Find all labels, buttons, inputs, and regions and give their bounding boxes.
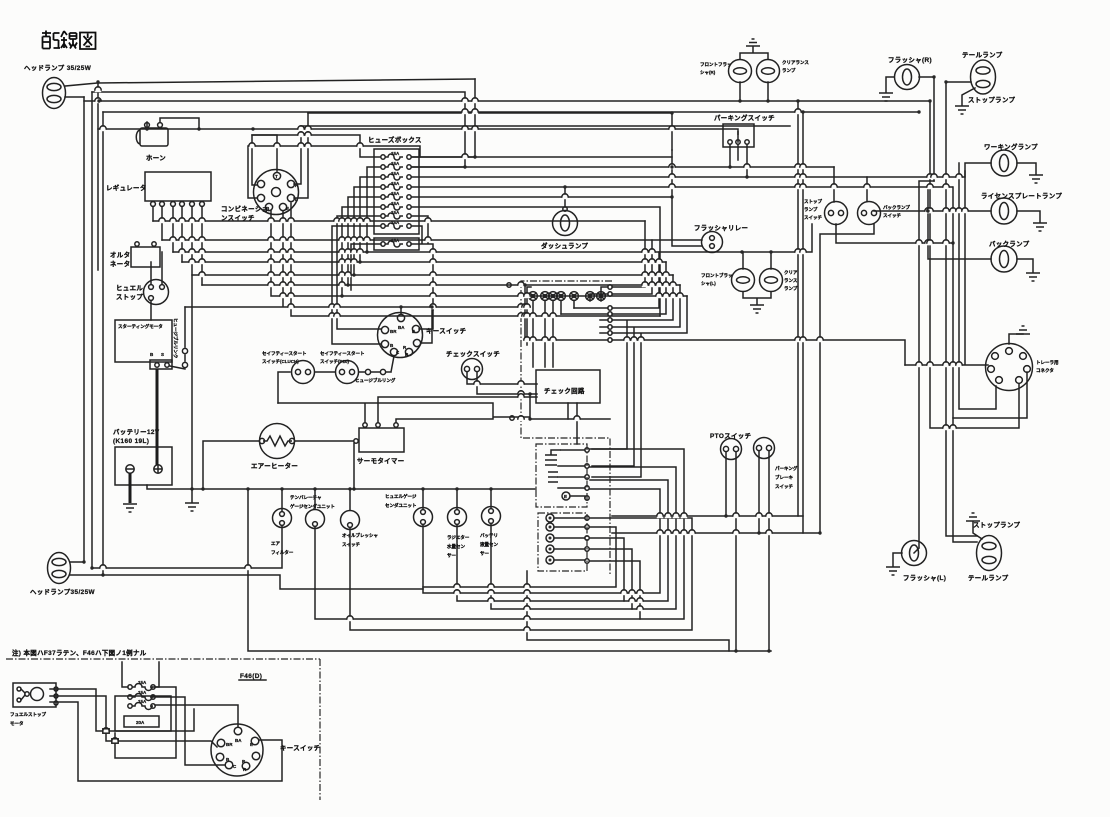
safety start switch (PTO)	[320, 350, 365, 384]
svg-text:フラッシャ(L): フラッシャ(L)	[903, 574, 946, 582]
svg-text:コンビネーショ: コンビネーショ	[221, 204, 268, 213]
fuse F1 15A	[381, 151, 411, 160]
svg-text:ヒュエル: ヒュエル	[116, 284, 143, 292]
wire: combo top riser	[252, 135, 277, 185]
wire + ground (front R pair)	[740, 47, 768, 59]
wire: left verticals	[84, 83, 103, 575]
inset fuse f3 15A	[128, 699, 155, 710]
fusible link (vertical, at starting motor)	[170, 307, 188, 369]
wire: motor pin1 loop	[50, 689, 194, 731]
combination switch コンビネーションスイッチ	[221, 170, 299, 223]
wire: bus y316	[291, 203, 660, 316]
wire: license feed	[874, 210, 991, 212]
wire: key switch top riser	[401, 307, 432, 343]
svg-text:エアーヒーター: エアーヒーター	[251, 461, 298, 470]
svg-text:ブレーキ: ブレーキ	[775, 474, 793, 481]
wire: bus y296	[271, 211, 687, 296]
svg-text:セイフティースタート: セイフティースタート	[262, 350, 307, 357]
svg-text:バックランプ: バックランプ	[883, 204, 910, 211]
wire: relay feeds	[672, 150, 702, 246]
svg-text:テールランプ: テールランプ	[962, 50, 1003, 59]
svg-text:T: T	[275, 174, 278, 179]
wire: motor pin2 loop	[50, 696, 217, 747]
wire: sensor top risers	[282, 489, 491, 511]
wire: vertical x965 trailer left bus	[905, 171, 988, 365]
svg-text:ストップ: ストップ	[116, 292, 143, 301]
svg-text:PTOスイッチ: PTOスイッチ	[710, 432, 751, 440]
title 配線図	[42, 31, 96, 50]
svg-text:15A: 15A	[138, 699, 147, 704]
wire: gauge box2 pin runs	[423, 527, 640, 619]
parking brake switch	[754, 438, 798, 491]
svg-text:ネータ: ネータ	[110, 259, 130, 268]
wire: vertical x959 to trailer	[959, 163, 996, 409]
stop lamp switch	[804, 198, 848, 225]
svg-text:フラッシャリレー: フラッシャリレー	[694, 224, 748, 232]
svg-text:バッテリー12V: バッテリー12V	[113, 428, 160, 436]
svg-text:セイフティースタート: セイフティースタート	[320, 350, 365, 357]
wire: working lamp feed	[867, 163, 991, 177]
svg-text:フュエルストップ: フュエルストップ	[10, 711, 46, 718]
wire: headlamp1 pin2	[65, 96, 84, 98]
key switch キースイッチ	[378, 313, 467, 358]
inset wires	[50, 662, 282, 781]
working lamp ワーキングランプ	[984, 142, 1038, 176]
wire: motor pin3 big loop	[50, 702, 282, 781]
svg-text:ヒューズボックス: ヒューズボックス	[368, 135, 422, 144]
gauge box 2 (dashed)	[538, 513, 589, 571]
connector pin (check line)	[510, 416, 514, 420]
wire: parking sw drops	[730, 145, 747, 177]
wire: fuse9	[351, 244, 433, 310]
svg-text:ヘッドランプ 35/25W: ヘッドランプ 35/25W	[24, 63, 92, 72]
svg-text:ランプ: ランプ	[804, 206, 818, 213]
wire: combo L riser	[294, 113, 308, 198]
svg-text:ダッシュランプ: ダッシュランプ	[541, 241, 589, 250]
wire: air heater left to ground bus	[203, 441, 259, 489]
wire: vertical x930 to trailer loop	[930, 101, 1019, 428]
fuse F7 15A	[381, 210, 411, 219]
fuel stop ヒュエルストップ	[116, 280, 169, 305]
svg-text:ストップ: ストップ	[804, 198, 822, 205]
wire: air filter ground run	[92, 526, 282, 568]
wire: headlamp1 pin1 to bus	[65, 83, 98, 86]
svg-text:15A: 15A	[391, 181, 400, 186]
inset fuse f2 15A	[128, 690, 155, 701]
front flasher (R)	[700, 60, 752, 83]
wire: bus y90	[92, 92, 465, 167]
battery cable +	[156, 369, 159, 465]
wire + ground (flasher R)	[886, 77, 894, 92]
wire: fuse2 right loop	[153, 697, 225, 765]
svg-text:ランプ: ランプ	[782, 67, 796, 74]
svg-text:15A: 15A	[391, 151, 400, 156]
fusible link circles	[355, 369, 396, 384]
wire: nest loop E	[350, 518, 692, 630]
svg-text:ホーン: ホーン	[146, 154, 166, 162]
svg-text:ゲージセンダユニット: ゲージセンダユニット	[290, 503, 335, 510]
fuel stop motor フュエルストップモータ	[10, 683, 58, 727]
ground (chassis center)	[185, 489, 199, 511]
svg-text:15A: 15A	[138, 680, 147, 685]
wire: into gauge box1	[491, 488, 536, 490]
cluster pins	[608, 285, 612, 342]
svg-text:キースイッチ: キースイッチ	[280, 744, 320, 752]
svg-text:ストップランプ: ストップランプ	[973, 520, 1021, 529]
wire: fuse right runs	[412, 157, 952, 316]
svg-text:フラッシャ(R): フラッシャ(R)	[888, 56, 932, 64]
front flasher (L)	[701, 269, 755, 292]
svg-text:ヘッドランプ35/25W: ヘッドランプ35/25W	[30, 587, 96, 596]
ground (battery)	[123, 504, 137, 512]
wire: flasher R feed	[919, 77, 934, 181]
svg-text:注) 本図ハF37ラテン、F46ハ下図ノ1例ナル: 注) 本図ハF37ラテン、F46ハ下図ノ1例ナル	[12, 648, 147, 657]
horn ホーン	[136, 123, 168, 162]
wire: back lamp feed	[928, 187, 991, 259]
back lamp switch	[858, 202, 911, 225]
fuse F2 15A	[381, 161, 411, 170]
cluster internal wiring	[525, 285, 608, 367]
sensor: air filter	[271, 509, 294, 557]
svg-text:センダユニット: センダユニット	[385, 502, 417, 509]
sensor: radiator water level	[447, 508, 470, 560]
headlamp (top) 35/25W	[24, 63, 92, 109]
svg-text:ヒュージブルリング: ヒュージブルリング	[355, 377, 396, 384]
svg-text:15A: 15A	[391, 201, 400, 206]
air heater エアーヒーター	[251, 424, 298, 471]
fuse 9 (separate)	[374, 238, 419, 250]
svg-text:15A: 15A	[391, 210, 400, 215]
wire: bus y112 long	[103, 111, 919, 113]
wire: nest loop B	[457, 480, 668, 601]
wire: regulator pin drops to buses	[153, 207, 202, 489]
wire: y135 into fuse row1 left	[252, 135, 380, 157]
wire: bus y101 long	[84, 100, 930, 102]
svg-text:バックランプ: バックランプ	[989, 239, 1030, 248]
check circuit box チェック回路	[536, 370, 600, 403]
wire: bus y240	[162, 239, 702, 241]
svg-text:トレーラ用: トレーラ用	[1036, 359, 1059, 366]
svg-text:(K160 19L): (K160 19L)	[113, 438, 149, 445]
fuse F5 15A	[381, 191, 411, 200]
wire: vertical x946 to tail bottom	[946, 82, 977, 536]
junction dot (check)	[528, 392, 532, 396]
thermo timer サーモタイマー	[354, 423, 405, 465]
svg-text:レギュレータ: レギュレータ	[106, 183, 147, 192]
svg-text:ライセンスプレートランプ: ライセンスプレートランプ	[981, 191, 1062, 200]
wire: key C to fusible	[151, 252, 162, 320]
wire: nest loop C	[491, 467, 676, 609]
wire: thermo left pin down	[353, 443, 355, 489]
fuse F8 15A	[381, 220, 411, 229]
wire: bus y129	[98, 129, 738, 142]
svg-text:オイルブレッシャ: オイルブレッシャ	[342, 532, 378, 539]
svg-text:F46(D): F46(D)	[240, 673, 262, 680]
svg-text:ストップランプ: ストップランプ	[968, 95, 1016, 104]
svg-text:フロントブラッ: フロントブラッ	[701, 272, 733, 279]
inset fuse box	[115, 680, 171, 731]
svg-text:ランプ: ランプ	[784, 285, 798, 292]
wire hops	[95, 87, 968, 632]
wire: key top to fuse3	[155, 705, 238, 727]
svg-text:BR: BR	[226, 742, 233, 747]
svg-text:チェック回路: チェック回路	[544, 386, 585, 395]
wire: ground bus y489	[147, 485, 490, 489]
wire: fuse left drops	[332, 167, 381, 344]
svg-text:液量セン: 液量セン	[480, 541, 498, 548]
wire: bus y262	[182, 261, 666, 263]
svg-text:パーキング: パーキング	[775, 465, 798, 472]
alternator オルタネータ	[110, 242, 160, 268]
svg-text:コネクタ: コネクタ	[1036, 367, 1054, 374]
fuse box ヒューズボックス	[368, 135, 422, 250]
inset fuse f1 15A	[128, 680, 155, 691]
svg-text:S: S	[161, 352, 164, 357]
wire: inset feed verticals	[122, 662, 159, 687]
headlamp (bottom) 35/25W	[30, 553, 96, 597]
license plate lamp	[981, 191, 1062, 224]
svg-text:スターティングモータ: スターティングモータ	[118, 323, 163, 330]
wire: bus y307	[185, 211, 530, 307]
svg-text:ワーキングランプ: ワーキングランプ	[984, 142, 1038, 151]
safety start switch (CLUTCH)	[262, 350, 315, 384]
svg-text:15A: 15A	[138, 690, 147, 695]
wire: thermo timer risers	[278, 394, 610, 422]
svg-text:クリア: クリア	[784, 269, 798, 276]
wire: bus y275	[192, 274, 673, 276]
svg-text:サーモタイマー: サーモタイマー	[357, 456, 405, 465]
fuse F6 15A	[381, 201, 411, 210]
clearance lamp (L)	[760, 269, 798, 293]
wire: vertical x953 to tail bottom	[953, 187, 977, 542]
PTO switch PTOスイッチ	[710, 432, 751, 460]
svg-text:15A: 15A	[391, 171, 400, 176]
svg-text:E: E	[564, 494, 567, 499]
svg-text:E: E	[286, 206, 289, 211]
wire: vertical x919 to flasher L	[914, 181, 934, 553]
tail lamp (top) + stop lamp	[962, 50, 1016, 104]
svg-text:パーキングスイッチ: パーキングスイッチ	[714, 113, 775, 122]
wire: cluster long bus to trailer	[612, 340, 905, 365]
battery cable -	[129, 473, 132, 503]
wire: headlamp2 connections	[70, 562, 423, 589]
connector pin (bus)	[507, 283, 511, 287]
svg-text:BR: BR	[390, 329, 397, 334]
wire: parking brake drops	[759, 451, 769, 651]
svg-text:ラジエター: ラジエター	[447, 534, 470, 541]
wire: front flasher L risers	[743, 252, 771, 269]
wire: combo R riser	[294, 126, 790, 184]
wire: nest loop D	[315, 449, 684, 619]
wire: y640 bottom	[527, 571, 729, 651]
wire: vertical x475 to fuse row1	[412, 79, 475, 157]
flasher (L)	[902, 541, 947, 583]
wire: bus y113 from combo to relay column	[308, 113, 672, 150]
gauge box 1 (dashed)	[536, 444, 589, 507]
wire: front flasher R drops	[740, 82, 768, 101]
inset key switch	[211, 724, 320, 776]
wire: bus y252	[173, 224, 836, 252]
fuse F9 15A	[381, 238, 411, 247]
fuse F4 15A	[381, 181, 411, 190]
svg-text:20A: 20A	[136, 720, 145, 725]
wire: safety switches chain	[278, 356, 394, 403]
wire: stop/back switch bottoms	[820, 224, 953, 533]
wire: hop marks	[103, 729, 109, 733]
svg-text:E: E	[412, 329, 415, 334]
svg-text:15A: 15A	[391, 191, 400, 196]
svg-text:BA: BA	[398, 325, 405, 330]
starting motor スターティングモータ	[115, 320, 172, 369]
wire: right mid verticals	[798, 101, 803, 533]
svg-text:15A: 15A	[391, 161, 400, 166]
inset boundary (dash-dot)	[6, 659, 320, 800]
svg-text:オルタ: オルタ	[110, 250, 130, 259]
wire: nest outer loop	[248, 489, 771, 651]
battery バッテリー12V	[113, 369, 172, 503]
wire: nest loop A	[423, 489, 660, 593]
indicator lamps row	[529, 292, 606, 301]
wire: cluster pin runs right	[592, 221, 687, 477]
wire: dash lamp riser	[564, 187, 566, 207]
wire: check box bottom drops	[568, 403, 577, 444]
check switch チェックスイッチ	[446, 349, 500, 380]
svg-text:ヒュエルゲージ: ヒュエルゲージ	[385, 493, 417, 500]
fuse F3 15A	[381, 171, 411, 180]
svg-text:E: E	[250, 742, 253, 747]
wire: bus y285	[202, 284, 680, 286]
trailer connector トレーラ用コネクタ	[986, 344, 1059, 391]
wire: stop sw top	[833, 167, 835, 202]
dash lamp ダッシュランプ	[541, 207, 589, 250]
back lamp バックランプ	[989, 239, 1030, 272]
svg-text:BA: BA	[235, 738, 242, 743]
flasher relay フラッシャリレー	[694, 224, 748, 253]
svg-text:ヒュージブルリンク: ヒュージブルリンク	[172, 318, 179, 359]
clearance lamp (R)	[757, 59, 810, 83]
svg-text:テールランプ: テールランプ	[968, 573, 1009, 582]
wire: bus y81 top	[98, 79, 475, 83]
sensor: oil pressure switch	[341, 511, 379, 549]
regulator レギュレータ	[106, 172, 211, 206]
wire: fuse1 right loop	[115, 687, 176, 758]
parking switch パーキングスイッチ	[714, 113, 775, 147]
sensor: temperature gauge sender	[290, 495, 335, 529]
wire: bus y221	[153, 220, 645, 222]
wire: horn drops	[147, 118, 199, 129]
flasher (R)	[888, 56, 932, 90]
wire: key E riser	[419, 310, 433, 329]
sensor: battery fluid level	[480, 507, 501, 558]
wire: pto area horizontals	[612, 516, 820, 533]
svg-text:チェックスイッチ: チェックスイッチ	[446, 349, 500, 358]
wire: air heater right to thermo	[295, 440, 353, 442]
svg-text:水量セン: 水量セン	[447, 543, 465, 550]
svg-text:モータ: モータ	[10, 720, 24, 727]
wire: pto drops	[726, 452, 736, 651]
svg-text:クリアランス: クリアランス	[782, 59, 809, 66]
wire: trailer lower loop	[953, 372, 1027, 418]
sensor: fuel gauge sender	[385, 493, 433, 527]
instrument cluster boundary (dash-dot)	[521, 281, 612, 575]
wire + ground (tail top)	[962, 88, 975, 105]
tail lamp (bottom) + stop lamp	[968, 520, 1021, 582]
wire: check switch drops	[467, 372, 537, 394]
wire: y146 bus	[248, 146, 420, 198]
